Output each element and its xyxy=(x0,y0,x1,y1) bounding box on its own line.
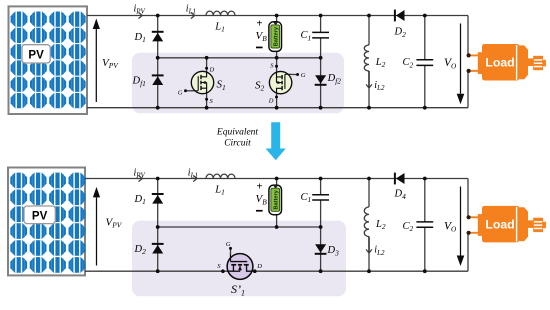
node: L2 bottom junction (top) xyxy=(367,106,371,110)
svg-text:G: G xyxy=(226,241,231,248)
diode D1 (bottom) xyxy=(134,194,164,206)
svg-text:Battery: Battery xyxy=(274,26,280,46)
wire: right vertical (top circuit) xyxy=(467,16,469,108)
wire: battery vertical (bottom) xyxy=(276,179,278,228)
capacitor C2 (bottom) xyxy=(403,221,434,233)
node: D3 bottom junction (bottom) xyxy=(319,269,323,273)
voltage arrow VO (bottom) xyxy=(444,187,464,267)
wire: middle rail (top circuit) xyxy=(158,57,321,59)
wire: C2 branch (top circuit) xyxy=(424,16,426,108)
node: C1-D3 junction (bottom) xyxy=(319,225,323,229)
voltage arrow VPV (top) xyxy=(93,19,120,103)
voltage arrow VO (top) xyxy=(444,24,464,105)
wire: Df1 branch xyxy=(157,58,159,108)
capacitor C2 (top) xyxy=(403,57,434,69)
wire: L2 branch (top circuit) xyxy=(368,16,370,108)
node: S2 drain junction xyxy=(275,106,279,110)
node: battery top junction xyxy=(275,14,279,18)
svg-text:+: + xyxy=(256,181,262,193)
node: S1 drain junction xyxy=(205,56,209,60)
battery VB (top) xyxy=(256,17,282,51)
svg-text:Equivalent: Equivalent xyxy=(216,128,259,138)
wire: bottom rail (bottom circuit) xyxy=(85,270,468,272)
diode D1 (top) xyxy=(134,32,164,44)
transistor S2 (MOSFET) xyxy=(255,63,306,105)
wire: C2 branch (bottom) xyxy=(424,179,426,272)
node: L2 bottom junction (bottom) xyxy=(367,269,371,273)
diode D2 (bottom) xyxy=(134,244,164,256)
wire: middle rail (bottom circuit) xyxy=(158,226,321,228)
load (bottom) xyxy=(467,206,546,243)
battery VB (bottom) xyxy=(256,181,282,215)
node: L2 top junction (bottom) xyxy=(367,177,371,181)
voltage arrow VPV (bottom) xyxy=(93,187,123,266)
wire: C1-Df2 branch xyxy=(320,16,322,108)
svg-text:Load: Load xyxy=(485,218,514,232)
wire: bottom rail (top circuit) xyxy=(87,107,468,109)
wire: S1 pins vertical xyxy=(206,58,208,108)
wire: D3 branch (bottom) xyxy=(320,227,322,271)
svg-text:Load: Load xyxy=(485,56,514,70)
node: C1-Df2 junction xyxy=(319,56,323,60)
node: D1-D2 junction (bottom) xyxy=(156,225,160,229)
wire: D1 branch (bottom) xyxy=(157,179,159,228)
node: D2 bottom junction (bottom) xyxy=(156,269,160,273)
node: Df2 bottom junction xyxy=(319,106,323,110)
transistor S'1 (MOSFET, equivalent) xyxy=(217,241,262,298)
inductor L2 (bottom) xyxy=(364,207,386,237)
wire: battery-S2 vertical xyxy=(276,16,278,108)
svg-text:PV: PV xyxy=(32,210,48,222)
wire: D1 branch xyxy=(157,16,159,58)
PV panel (top) xyxy=(9,6,88,114)
svg-text:Circuit: Circuit xyxy=(224,139,251,149)
svg-text:PV: PV xyxy=(28,50,44,62)
node: C1 top junction (bottom) xyxy=(319,177,323,181)
current arrow iL1 (bottom) xyxy=(188,167,198,181)
svg-text:D: D xyxy=(268,97,274,104)
svg-text:D: D xyxy=(209,66,215,73)
node: battery bottom junction xyxy=(275,56,279,60)
node: Df1 bottom junction xyxy=(156,106,160,110)
current arrow iL2 (bottom) xyxy=(366,237,385,257)
diode D4 (bottom) xyxy=(394,173,407,201)
diode Df1 (freewheel, top) xyxy=(132,75,164,87)
transistor S1 (MOSFET) xyxy=(178,66,226,105)
node: D1 top junction xyxy=(156,14,160,18)
cyan transformation arrow xyxy=(266,122,286,160)
current arrow iL2 (top) xyxy=(366,71,385,92)
capacitor C1 (bottom) xyxy=(301,192,330,204)
node: L2 top junction (top) xyxy=(367,14,371,18)
PV panel (bottom) xyxy=(8,168,85,276)
diode Df2 (freewheel, top) xyxy=(315,73,342,85)
current arrow iL1 (top) xyxy=(186,3,196,18)
node: D1-Df1 junction xyxy=(156,56,160,60)
wire: D2 branch (bottom) xyxy=(157,227,159,271)
node: D1 top junction (bottom) xyxy=(156,177,160,181)
wire: top rail (top circuit) xyxy=(87,15,468,17)
node: C2 top junction (top) xyxy=(423,14,427,18)
svg-text:G: G xyxy=(301,72,306,79)
inductor L1 (bottom) xyxy=(206,174,235,196)
shaded equivalent-circuit region (top converter) xyxy=(132,53,344,114)
svg-text:D: D xyxy=(256,263,262,270)
inductor L1 (top) xyxy=(206,11,235,33)
wire: L2 branch (bottom) xyxy=(368,179,370,272)
current arrow iPV (top) xyxy=(134,3,146,18)
node: S1 source junction xyxy=(205,106,209,110)
node: battery top junction (bottom) xyxy=(275,177,279,181)
wire: top rail (bottom circuit) xyxy=(85,178,468,180)
label: Equivalent Circuit xyxy=(216,128,259,149)
node: C2 bottom junction (bottom) xyxy=(423,269,427,273)
shaded equivalent-circuit region (bottom converter) xyxy=(132,221,346,297)
wire: right vertical (bottom circuit) xyxy=(467,179,469,272)
node: battery bottom junction (bottom) xyxy=(275,225,279,229)
diode D2 (top) xyxy=(394,10,407,39)
svg-text:G: G xyxy=(178,90,183,97)
inductor L2 (top) xyxy=(364,45,385,71)
wire: C1 branch (bottom) xyxy=(320,179,322,228)
load (top) xyxy=(467,44,546,81)
diode D3 (bottom) xyxy=(315,244,339,257)
node: C2 top junction (bottom) xyxy=(423,177,427,181)
node: C1 top junction xyxy=(319,14,323,18)
node: C2 bottom junction (top) xyxy=(423,106,427,110)
capacitor C1 (top) xyxy=(301,30,330,42)
current arrow iPV (bottom) xyxy=(134,167,146,181)
svg-text:+: + xyxy=(256,17,262,29)
svg-text:Battery: Battery xyxy=(274,189,280,209)
